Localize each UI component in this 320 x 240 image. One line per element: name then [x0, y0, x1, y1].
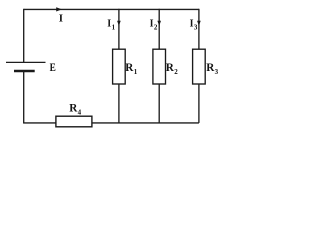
svg-text:R2: R2 — [166, 62, 178, 76]
current arrow I2 — [157, 21, 161, 26]
svg-text:I2: I2 — [150, 18, 158, 31]
svg-text:E: E — [50, 60, 56, 74]
svg-text:I: I — [59, 13, 63, 25]
resistor R2 — [153, 49, 166, 84]
resistor R4 — [56, 116, 92, 127]
resistor R1 — [113, 49, 126, 84]
resistor R3 — [193, 49, 206, 84]
wire top horizontal — [24, 8, 199, 10]
wire branch 2 lower — [158, 84, 160, 123]
svg-text:R1: R1 — [125, 62, 137, 76]
svg-text:R3: R3 — [206, 62, 218, 76]
svg-text:I3: I3 — [190, 18, 198, 31]
battery E long plate — [6, 61, 46, 63]
wire branch 3 lower — [198, 84, 200, 123]
wire left upper to battery — [23, 9, 25, 63]
wire branch 3 upper — [198, 9, 200, 50]
current arrow I3 — [197, 21, 201, 26]
wire branch 1 lower — [118, 84, 120, 123]
wire branch 1 upper — [118, 9, 120, 50]
wire bottom horizontal — [23, 122, 199, 124]
svg-text:I1: I1 — [107, 18, 115, 31]
svg-text:R4: R4 — [69, 103, 81, 117]
wire branch 2 upper — [158, 9, 160, 50]
battery E short thick plate — [14, 70, 35, 73]
current arrow I on top wire — [56, 7, 62, 11]
current arrow I1 — [117, 21, 121, 26]
wire left lower from battery — [23, 71, 25, 123]
